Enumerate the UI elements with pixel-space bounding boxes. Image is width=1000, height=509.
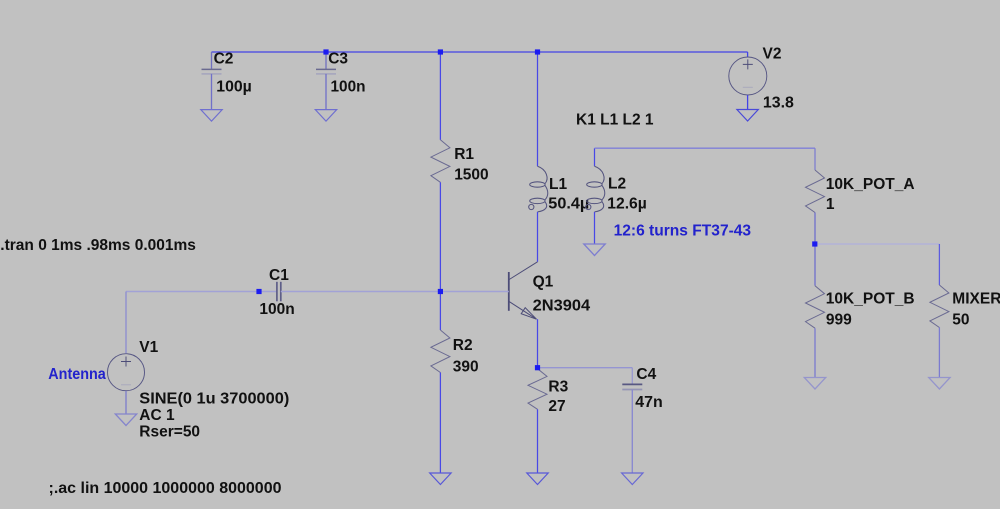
wire V2 ground lead <box>747 95 749 110</box>
wire V1 ground lead <box>125 391 127 414</box>
wire R3 ground lead <box>537 409 539 473</box>
ground (POT_B) <box>804 378 825 390</box>
svg-text:100n: 100n <box>259 301 294 318</box>
resistor R1 <box>431 140 450 183</box>
ground (R2) <box>430 473 451 485</box>
svg-text:50.4µ: 50.4µ <box>548 195 589 212</box>
wire L2 ground lead <box>594 212 596 244</box>
wire V1 riser <box>125 292 127 354</box>
svg-text:12.6µ: 12.6µ <box>607 195 647 212</box>
junction node (L1 / rail) <box>535 49 540 54</box>
inductor L2 <box>586 166 605 212</box>
svg-text:13.8: 13.8 <box>763 94 794 111</box>
ground (V1) <box>115 414 136 426</box>
transistor Q1 <box>509 262 538 319</box>
svg-text:R1: R1 <box>454 146 474 163</box>
ground (V2) <box>737 110 758 122</box>
wire C2 top lead <box>211 52 213 69</box>
capacitor C3 <box>316 69 336 74</box>
svg-text:47n: 47n <box>635 394 663 411</box>
junction node (antenna / C1 wire) <box>256 289 261 294</box>
wire C1 to base node <box>281 291 441 293</box>
resistor R3 <box>528 369 547 410</box>
wire L1 to Q1 collector <box>537 212 539 262</box>
resistor MIXER <box>930 285 949 327</box>
ground (MIXER) <box>929 378 950 390</box>
svg-text:Rser=50: Rser=50 <box>139 423 200 440</box>
svg-text:Antenna: Antenna <box>48 366 106 383</box>
svg-text:V1: V1 <box>139 339 158 356</box>
voltage source V1 <box>108 354 145 391</box>
wire C2 ground lead <box>211 74 213 110</box>
junction node (POT_A / POT_B / MIXER) <box>812 241 817 246</box>
wire C4 ground lead <box>631 390 633 474</box>
svg-text:27: 27 <box>548 398 565 415</box>
inductor L1 <box>529 166 548 212</box>
svg-text:V2: V2 <box>763 45 782 62</box>
ground (C3) <box>315 110 336 122</box>
wire POT_B top lead <box>814 244 816 286</box>
wire Q1 emitter lead <box>537 319 539 368</box>
wire V2 top stub <box>747 52 749 57</box>
svg-text:390: 390 <box>453 359 479 376</box>
svg-text:;.ac lin 10000 1000000 8000000: ;.ac lin 10000 1000000 8000000 <box>49 480 282 497</box>
svg-text:Q1: Q1 <box>533 273 554 290</box>
voltage source V2 <box>729 57 767 95</box>
svg-text:C1: C1 <box>269 267 289 284</box>
wire R1 top lead <box>439 52 441 140</box>
svg-text:.tran 0 1ms .98ms 0.001ms: .tran 0 1ms .98ms 0.001ms <box>0 237 196 254</box>
svg-text:L1: L1 <box>549 176 567 193</box>
wire top supply rail <box>212 51 748 53</box>
svg-text:SINE(0 1u 3700000): SINE(0 1u 3700000) <box>139 390 289 407</box>
ground (C4) <box>622 473 643 485</box>
wire R2 top lead <box>439 292 441 331</box>
wire R3 top lead <box>537 368 539 369</box>
wire L1 top lead <box>537 52 539 166</box>
wire C4 top lead <box>631 368 633 385</box>
wire L2 top lead <box>594 148 596 166</box>
svg-text:1: 1 <box>826 196 835 213</box>
ground (L2) <box>584 244 605 256</box>
svg-text:R3: R3 <box>548 378 568 395</box>
svg-text:C4: C4 <box>636 366 656 383</box>
wire pot node to MIXER <box>815 243 939 245</box>
svg-text:R2: R2 <box>453 337 473 354</box>
svg-text:C2: C2 <box>214 51 234 68</box>
svg-text:1500: 1500 <box>454 167 489 184</box>
svg-text:2N3904: 2N3904 <box>533 297 591 314</box>
wire C3 top lead <box>325 52 327 69</box>
svg-text:100µ: 100µ <box>216 78 252 95</box>
svg-text:999: 999 <box>826 311 852 328</box>
svg-text:C3: C3 <box>328 51 348 68</box>
ground (R3) <box>527 473 548 485</box>
wire MIXER top lead <box>938 244 940 285</box>
resistor 10K_POT_A <box>806 170 825 213</box>
wire C3 ground lead <box>325 74 327 110</box>
svg-text:10K_POT_B: 10K_POT_B <box>826 290 915 307</box>
capacitor C1 <box>277 282 281 302</box>
junction node (C3 / rail) <box>323 49 328 54</box>
wire emitter node to C4 <box>538 367 633 369</box>
wire POT_B ground lead <box>814 328 816 377</box>
svg-text:12:6 turns FT37-43: 12:6 turns FT37-43 <box>614 222 752 239</box>
svg-text:10K_POT_A: 10K_POT_A <box>826 176 915 193</box>
svg-text:100n: 100n <box>331 78 366 95</box>
wire R1 bottom lead to base node <box>439 182 441 291</box>
wire POT_A top lead <box>814 148 816 170</box>
wire POT_A bottom lead <box>814 213 816 245</box>
resistor R2 <box>431 330 450 372</box>
ground (C2) <box>201 110 222 122</box>
wire L2 to 10K_POT_A <box>595 147 816 149</box>
junction node (R1 / rail) <box>438 49 443 54</box>
wire MIXER ground lead <box>938 328 940 378</box>
wire R2 ground lead <box>439 373 441 474</box>
junction node (emitter / R3 / C4) <box>535 365 540 370</box>
resistor 10K_POT_B <box>806 286 825 328</box>
capacitor C4 <box>622 384 642 389</box>
junction node (base / R1 / R2) <box>438 289 443 294</box>
svg-text:K1 L1 L2 1: K1 L1 L2 1 <box>576 112 654 129</box>
svg-text:50: 50 <box>952 312 969 329</box>
wire antenna node to C1 <box>126 291 277 293</box>
capacitor C2 <box>202 69 222 74</box>
svg-text:MIXER: MIXER <box>952 291 1000 308</box>
svg-text:L2: L2 <box>608 175 626 192</box>
svg-text:AC 1: AC 1 <box>139 407 175 424</box>
wire base lead <box>440 291 508 293</box>
